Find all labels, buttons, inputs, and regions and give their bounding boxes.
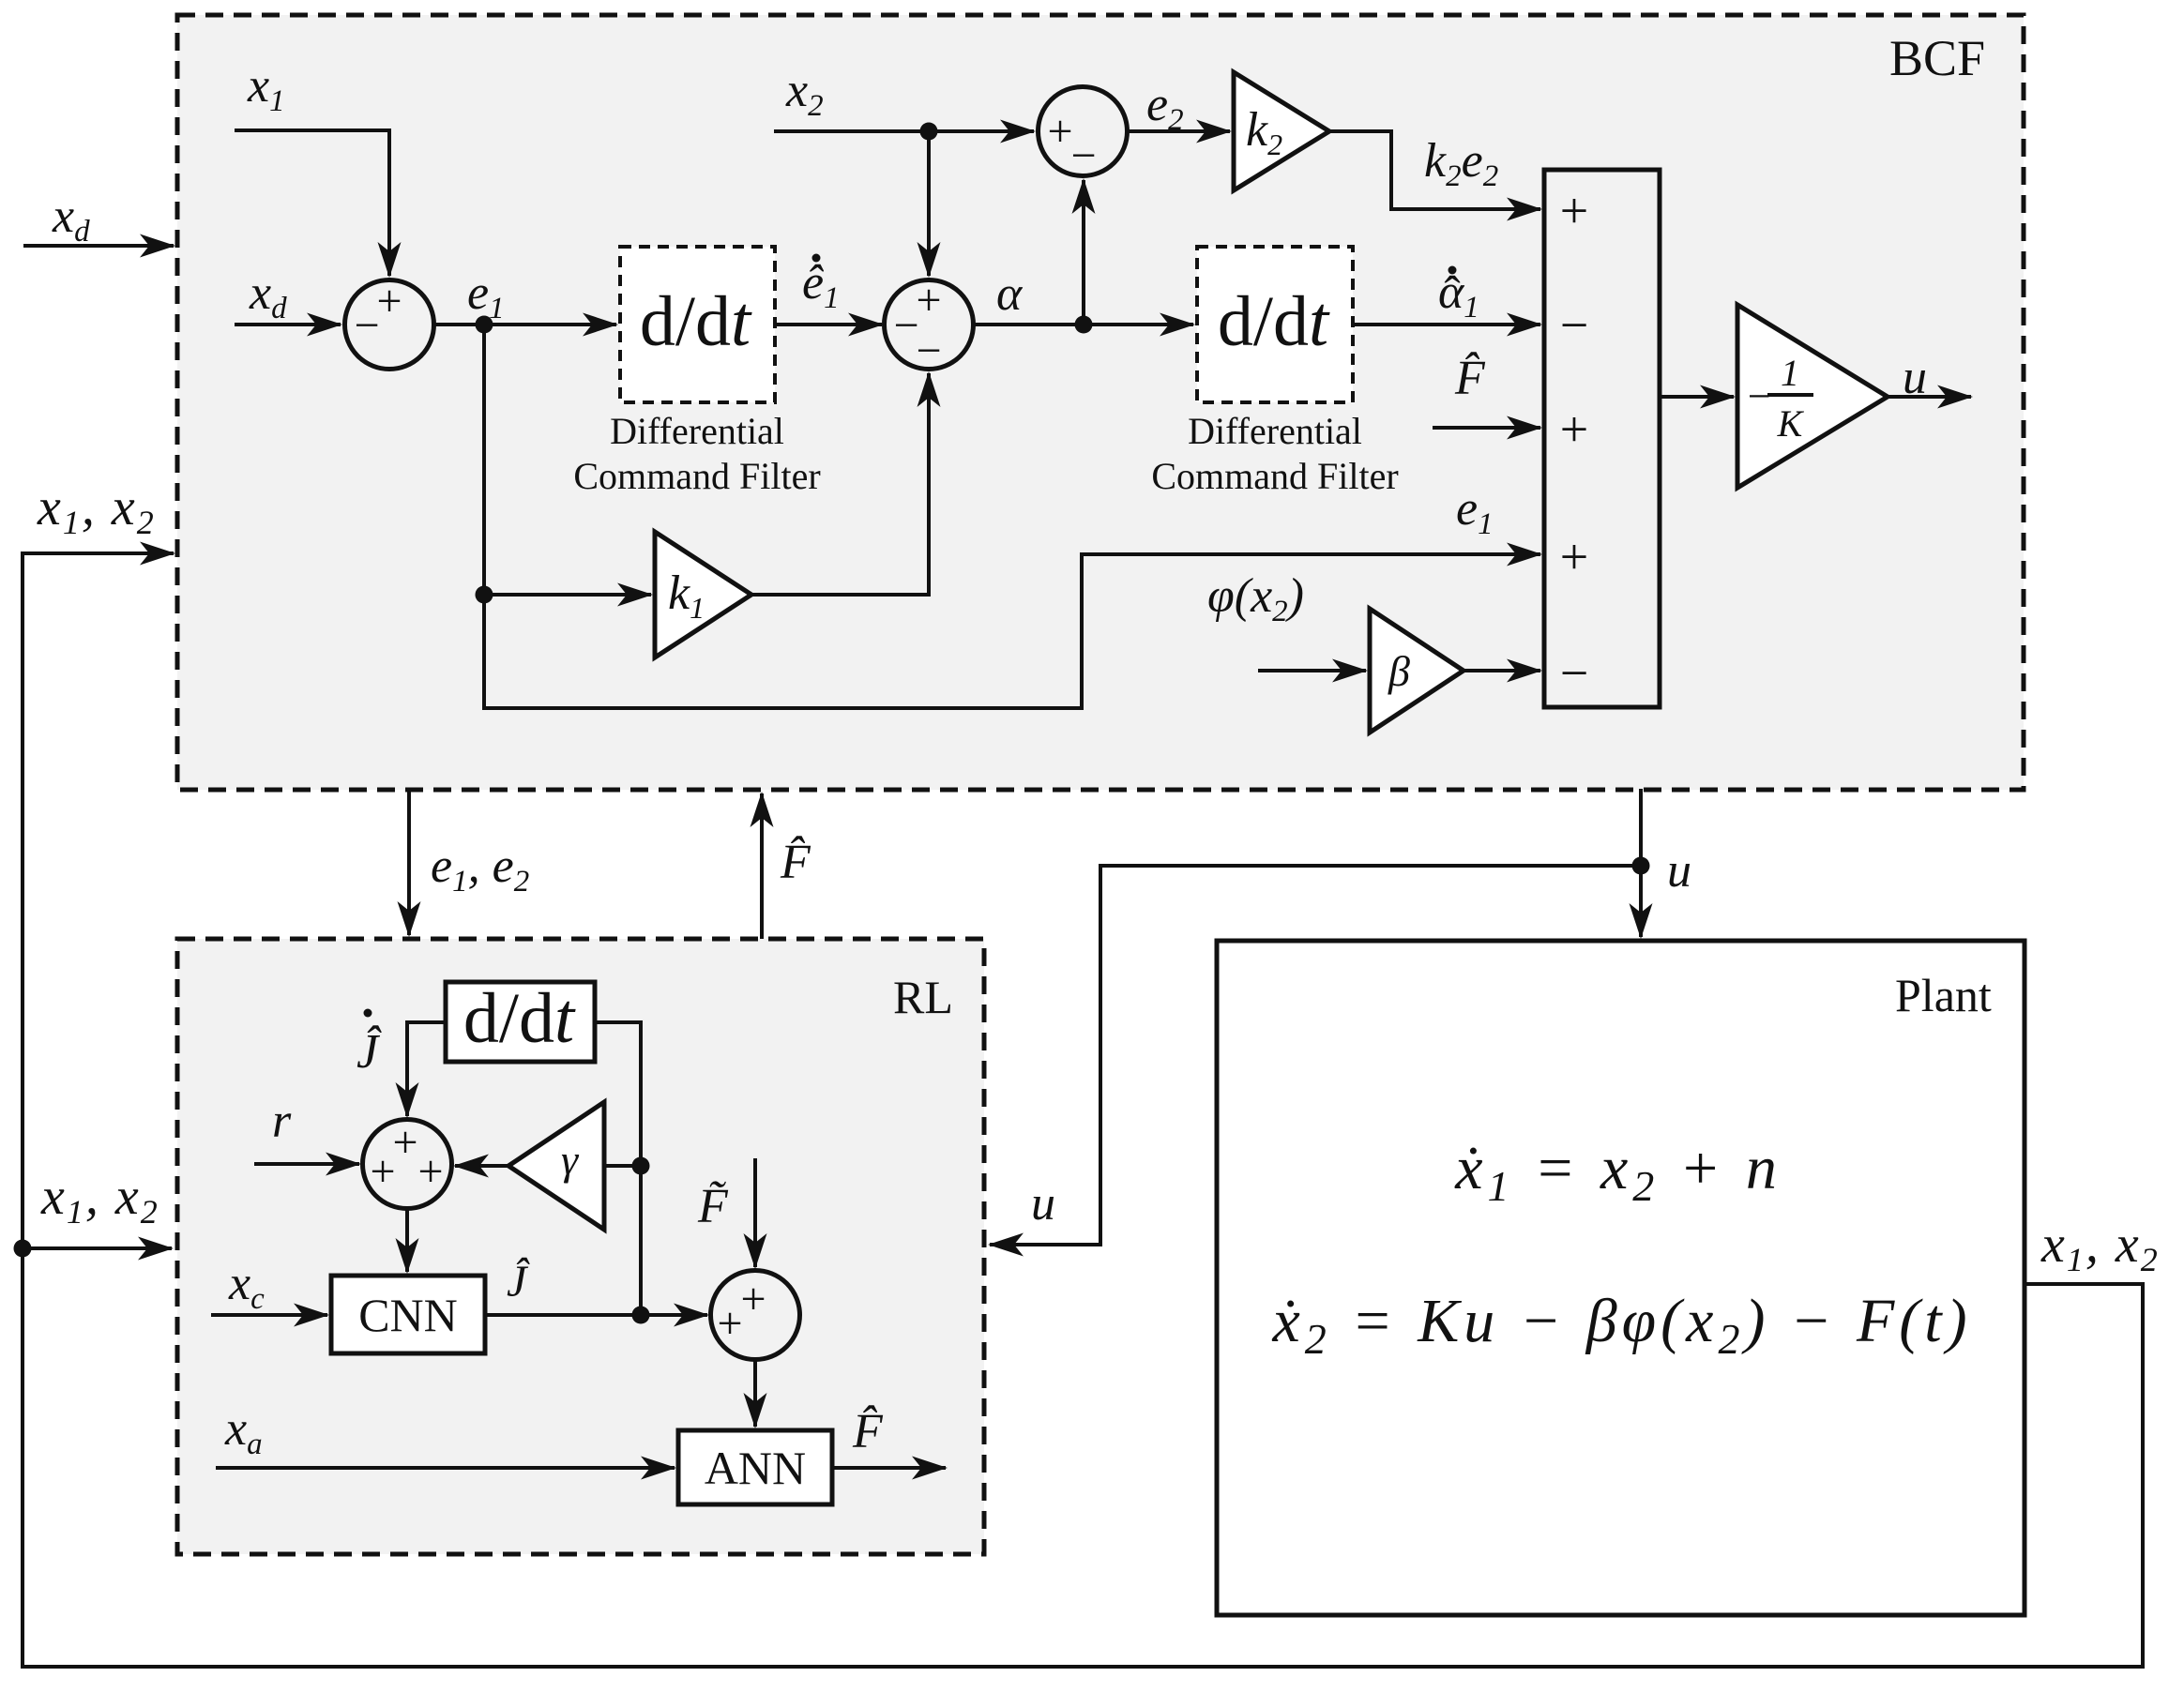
wire u output of BCF: [1888, 395, 1971, 399]
svg-text:Ĵ: Ĵ: [356, 1024, 382, 1079]
wire alpha up to S3 bottom: [1082, 180, 1085, 325]
svg-text:F̂: F̂: [780, 836, 811, 889]
ANN block: [678, 1430, 832, 1504]
wire J-hat from CNN to S5: [485, 1313, 707, 1317]
wire summer block to gain -1/K: [1660, 395, 1734, 399]
wire gamma output into S4: [455, 1164, 508, 1168]
node gamma input: [632, 1157, 650, 1175]
svg-text:+: +: [1560, 182, 1588, 238]
wire beta output to summer block: [1464, 669, 1540, 672]
wire e1,e2 from BCF to RL: [407, 790, 411, 935]
svg-text:γ: γ: [561, 1136, 580, 1184]
wire x1,x2 into RL: [23, 1246, 172, 1250]
summing junction S3 (e2): [1039, 87, 1128, 176]
svg-text:−: −: [1070, 130, 1096, 180]
svg-text:1: 1: [1781, 352, 1799, 394]
svg-text:+: +: [392, 1117, 417, 1167]
node e1 to k1 branch: [476, 586, 493, 604]
wire x_c into CNN: [211, 1313, 327, 1317]
svg-text:+: +: [916, 275, 941, 325]
wire x_d input to BCF: [23, 244, 174, 248]
wire gamma input stub: [604, 1164, 641, 1168]
wire e1 from S1 to first command filter: [434, 323, 617, 326]
wire e2 from S3 to gain k2: [1128, 129, 1231, 133]
wire k1 output to S2 bottom: [751, 373, 929, 595]
gain k2 triangle: [1234, 72, 1329, 190]
wire alpha1-dot from filter 2 to summer block: [1353, 323, 1540, 326]
svg-text:−: −: [1560, 644, 1588, 701]
node x2: [920, 123, 938, 141]
svg-text:xd: xd: [52, 189, 90, 249]
wire F-hat into summer block: [1433, 426, 1540, 430]
svg-text:r: r: [272, 1095, 292, 1148]
summing junction S4 (TD error): [363, 1120, 452, 1209]
wire r into S4: [254, 1162, 359, 1166]
node x1,x2 on left feedback wire: [14, 1240, 32, 1258]
svg-text:K: K: [1777, 402, 1805, 445]
svg-text:e1, e2: e1, e2: [431, 839, 529, 899]
svg-text:Plant: Plant: [1895, 969, 1992, 1021]
summing junction S2 (alpha): [885, 280, 974, 370]
svg-text:BCF: BCF: [1889, 30, 1985, 86]
d/dt box in RL: [446, 982, 595, 1062]
gain -1/K triangle: [1737, 305, 1888, 488]
svg-text:+: +: [1560, 400, 1588, 457]
BCF block dashed box: [177, 15, 2024, 790]
svg-text:ẋ2 = Ku − βφ(x2) − F(t): ẋ2 = Ku − βφ(x2) − F(t): [1271, 1287, 1971, 1363]
wire J-hat-dot from d/dt to S4: [407, 1022, 446, 1116]
svg-text:φ(x2): φ(x2): [1207, 569, 1304, 628]
svg-text:Differential: Differential: [1188, 410, 1362, 452]
wire F-tilde into S5: [753, 1158, 757, 1267]
svg-text:RL: RL: [893, 971, 953, 1023]
svg-text:−: −: [916, 325, 941, 375]
gain k1 triangle: [655, 532, 751, 657]
svg-text:F̂: F̂: [1454, 352, 1486, 405]
svg-text:Command Filter: Command Filter: [573, 455, 820, 497]
svg-text:−: −: [1560, 296, 1588, 353]
summing junction S1 (x_d - x_1): [345, 280, 434, 370]
wire k2e2 from k2 to summer block: [1329, 131, 1540, 209]
wire x_d into summing junction S1: [235, 323, 341, 326]
svg-text:+: +: [717, 1298, 742, 1348]
svg-text:x1, x2: x1, x2: [40, 1168, 159, 1231]
svg-text:d/dt: d/dt: [1218, 282, 1330, 361]
CNN block: [331, 1276, 485, 1353]
wire phi(x2) into gain beta: [1258, 669, 1366, 672]
svg-text:+: +: [1560, 528, 1588, 584]
svg-text:+: +: [417, 1146, 443, 1196]
wire S5 to ANN: [753, 1360, 757, 1428]
wire x2 into summing junction S3: [774, 129, 1034, 133]
wire e1-dot from filter 1 to S2: [775, 323, 882, 326]
gain gamma triangle (points left): [508, 1102, 604, 1230]
svg-text:ˆ: ˆ: [1444, 267, 1460, 321]
node J-hat: [632, 1307, 650, 1324]
svg-text:+: +: [740, 1274, 766, 1323]
svg-text:F̂: F̂: [852, 1405, 884, 1458]
command filter 2 dashed box d/dt: [1197, 247, 1353, 402]
node alpha: [1075, 316, 1093, 334]
svg-text:−: −: [354, 300, 379, 350]
svg-text:d/dt: d/dt: [463, 979, 576, 1058]
wire e1 into gain k1: [484, 593, 651, 597]
svg-text:Ĵ: Ĵ: [507, 1256, 530, 1307]
wire S4 to CNN: [405, 1209, 409, 1273]
summing junction S5: [711, 1271, 800, 1360]
wire u from BCF to Plant: [1639, 789, 1643, 937]
summer block (tall rectangle): [1544, 170, 1660, 707]
node u: [1632, 857, 1650, 875]
wire x1 into summing junction S1: [235, 130, 389, 276]
RL block dashed box: [177, 939, 984, 1554]
wire e1 feedback down and to summer block: [484, 325, 1540, 708]
svg-text:u: u: [1031, 1177, 1055, 1231]
svg-text:F̃: F̃: [697, 1180, 729, 1233]
svg-text:Command Filter: Command Filter: [1151, 455, 1398, 497]
wire F-hat output of ANN: [832, 1466, 946, 1470]
svg-text:x1, x2: x1, x2: [37, 478, 156, 541]
wire from d/dt right to gamma and J node: [595, 1022, 641, 1315]
wire x1,x2 feedback loop from Plant to BCF: [23, 553, 2143, 1667]
svg-text:CNN: CNN: [358, 1289, 458, 1341]
node e1: [476, 316, 493, 334]
svg-text:+: +: [376, 276, 402, 325]
wire x_a into ANN: [216, 1466, 675, 1470]
wire u from node to RL: [990, 866, 1641, 1245]
svg-text:Differential: Differential: [610, 410, 784, 452]
Plant block box: [1217, 941, 2025, 1615]
gain beta triangle: [1370, 609, 1464, 733]
svg-text:x1, x2: x1, x2: [2040, 1216, 2160, 1278]
svg-text:α: α: [996, 267, 1024, 321]
svg-text:d/dt: d/dt: [640, 282, 752, 361]
wire x2 down to S2 top: [927, 131, 931, 276]
wire alpha from S2 to command filter 2: [974, 323, 1194, 326]
svg-text:+: +: [370, 1146, 395, 1196]
wire F-hat from RL to BCF: [760, 793, 764, 939]
svg-text:u: u: [1667, 844, 1691, 898]
svg-text:+: +: [1047, 106, 1072, 156]
svg-text:u: u: [1903, 351, 1927, 404]
svg-text:β: β: [1388, 647, 1410, 695]
svg-text:ANN: ANN: [705, 1442, 806, 1494]
command filter 1 dashed box d/dt: [620, 247, 775, 402]
